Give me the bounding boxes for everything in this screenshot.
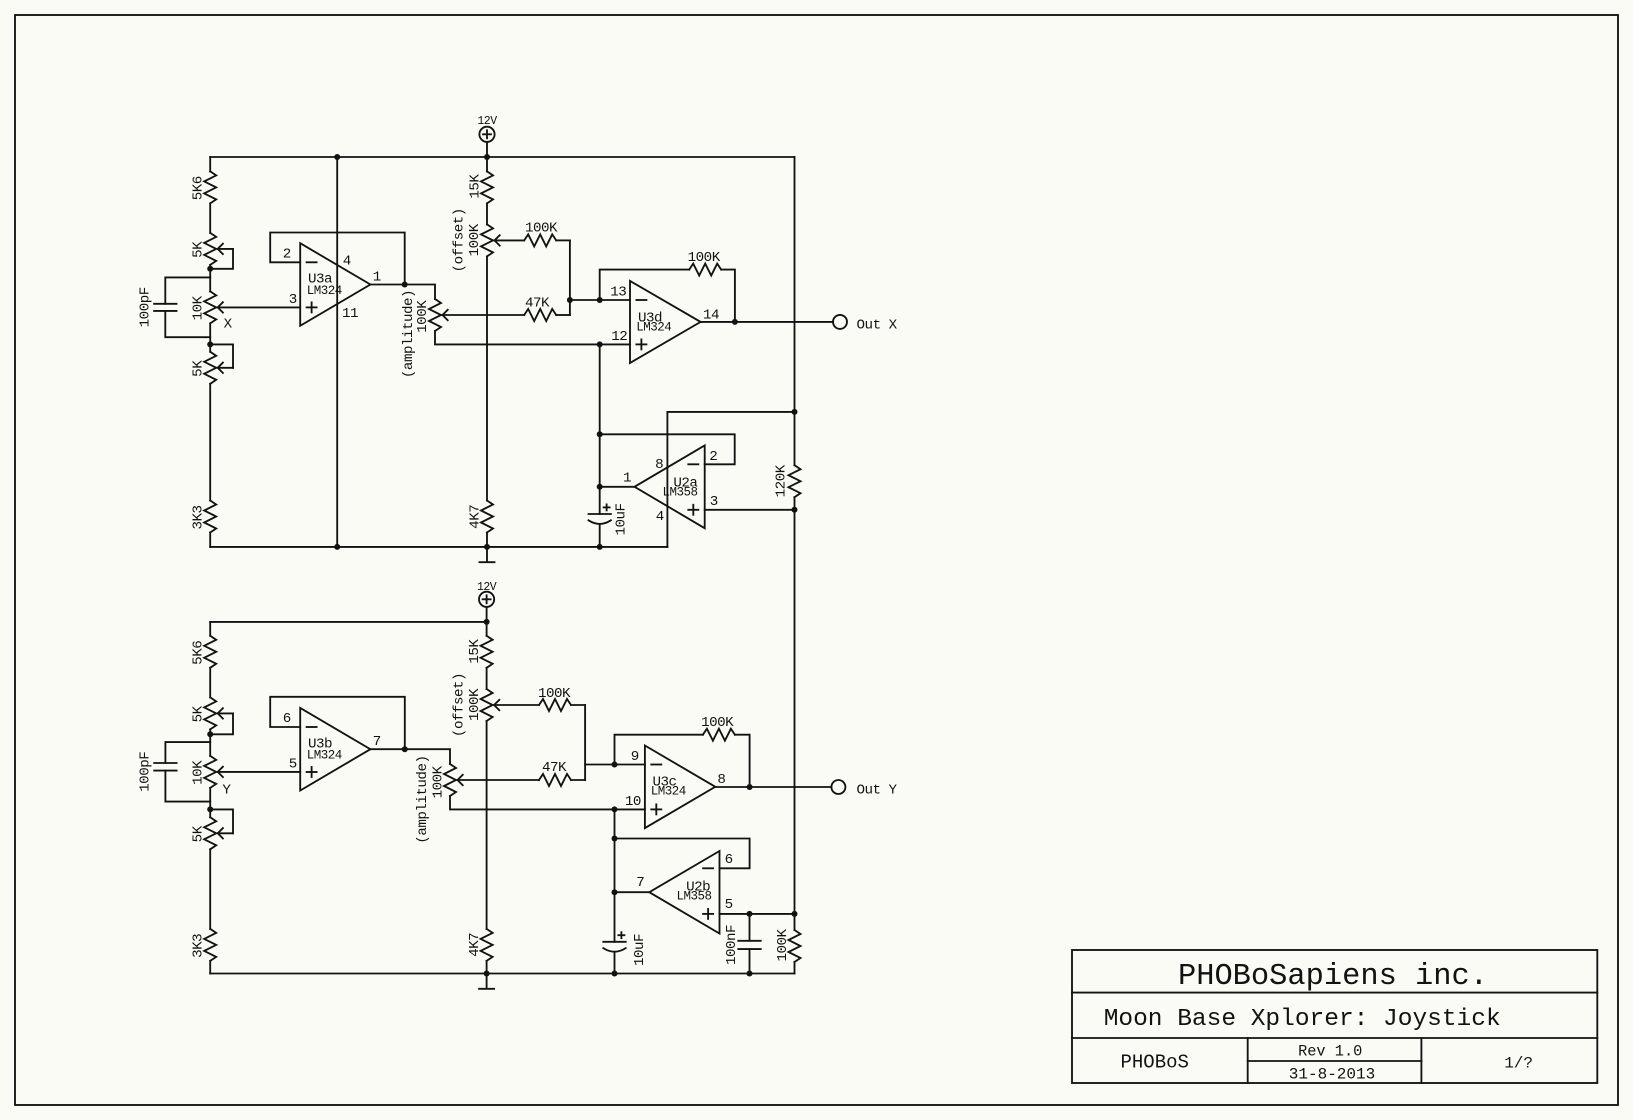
svg-text:(amplitude): (amplitude) (415, 756, 431, 844)
resistor 47K (Y) (539, 774, 571, 786)
wire buffer node vertical (X) (599, 344, 601, 514)
wire U3c feedback right leg (735, 735, 750, 787)
svg-text:(offset): (offset) (452, 208, 468, 272)
svg-text:3K3: 3K3 (190, 505, 206, 529)
wire offset 100K to 47K vertical (X) (569, 240, 571, 315)
svg-text:8: 8 (717, 772, 725, 788)
junction U3c feedback takeoff (612, 762, 618, 768)
wire U3a supply pins 4/11 vertical (336, 157, 338, 547)
resistor 5K6 (Y divider top) (204, 636, 216, 668)
wire amplitude pot bottom to U3d pin12 (435, 331, 630, 344)
wire to U3c pin 9 (585, 764, 645, 766)
svg-text:10uF: 10uF (632, 934, 648, 966)
svg-text:PHOBoSapiens inc.: PHOBoSapiens inc. (1178, 960, 1488, 994)
junction U3a pin11 line / ground rail (334, 544, 340, 550)
wire 47K to summing vertical (X) (556, 314, 570, 316)
svg-text:5K: 5K (190, 241, 206, 258)
junction node above 10K pot (Y) (207, 731, 213, 737)
op-amp U3d inverting input marker (636, 299, 646, 301)
svg-text:5: 5 (289, 757, 297, 773)
capacitor 100nF (reference) (738, 940, 760, 942)
wire top rail to 15K (X) (486, 157, 488, 171)
wire 3K3 to ground rail (X) (209, 533, 211, 547)
wire 100pF bottom branch (X) (165, 311, 210, 337)
svg-text:5K: 5K (190, 705, 206, 722)
svg-text:10uF: 10uF (614, 503, 630, 535)
svg-text:10: 10 (625, 794, 641, 810)
wire U2a supply pins 8/4 vertical (666, 412, 668, 547)
svg-text:5K: 5K (190, 825, 206, 842)
resistor 15K (Y offset divider) (481, 636, 493, 668)
wire to U3d pin 13 (570, 299, 630, 301)
svg-text:120K: 120K (774, 464, 790, 497)
svg-text:6: 6 (725, 852, 733, 868)
potentiometer 100K amplitude (X) (429, 299, 441, 331)
potentiometer 5K lower (X trim) (204, 352, 216, 384)
svg-text:47K: 47K (542, 760, 567, 776)
resistor 100K feedback (Y) (703, 729, 735, 741)
resistor 100K feedback (X) (689, 264, 721, 276)
svg-text:47K: 47K (525, 296, 550, 312)
wire 100pF top branch (X) (165, 277, 210, 303)
capacitor 10uF (X buffer) (589, 513, 611, 515)
svg-text:4K7: 4K7 (467, 505, 483, 529)
potentiometer 100K offset (Y) (481, 689, 493, 721)
svg-text:LM324: LM324 (651, 785, 686, 799)
svg-text:100K: 100K (775, 928, 791, 961)
svg-text:Moon Base Xplorer: Joystick: Moon Base Xplorer: Joystick (1104, 1006, 1501, 1033)
junction U2a output node (597, 484, 603, 490)
wire amplitude pot bottom to U3c pin10 (450, 796, 645, 809)
svg-text:3: 3 (289, 292, 297, 308)
wire left chain top (X) (209, 157, 211, 171)
wire 4K7 to ground rail (Y) (486, 961, 488, 974)
junction U3a pin4 line / top rail (334, 154, 340, 160)
wire 10uF to ground rail (Y) (614, 953, 616, 974)
svg-text:5K6: 5K6 (190, 176, 206, 200)
svg-text:10K: 10K (190, 760, 206, 785)
wire 5K pot to 10K pot (X) (209, 265, 211, 292)
wire 10uF to ground rail (X) (599, 525, 601, 547)
svg-text:2: 2 (709, 449, 717, 465)
svg-text:15K: 15K (467, 639, 483, 664)
junction 4K7 / ground rail (X) (484, 544, 490, 550)
junction U2b output node (612, 889, 618, 895)
junction node below 10K pot (Y) (207, 806, 213, 812)
wire 3K3 to ground rail (Y) (209, 961, 211, 974)
junction U3c output / feedback (747, 784, 753, 790)
svg-text:4: 4 (656, 509, 664, 525)
capacitor 100pF (Y) (154, 762, 176, 764)
junction node above 10K pot (X) (207, 266, 213, 272)
junction 10uF / ground rail (X) (597, 544, 603, 550)
wire 5K6 to 5K pot (X) (209, 203, 211, 233)
wire 100nF top lead (749, 914, 751, 941)
svg-text:13: 13 (610, 285, 626, 301)
svg-text:Out X: Out X (857, 317, 898, 333)
svg-text:5K: 5K (190, 360, 206, 377)
junction U2b pin6 / buffer node (612, 836, 618, 842)
op-amp U2b non-inverting input marker (703, 913, 713, 915)
connector Out X (833, 315, 847, 329)
op-amp U3c non-inverting input marker (651, 808, 661, 810)
svg-text:15K: 15K (467, 174, 483, 199)
resistor 100K (reference divider lower) (789, 930, 801, 962)
wire 5K6 to 5K pot (Y) (209, 668, 211, 698)
svg-text:100K: 100K (430, 765, 446, 798)
svg-text:2: 2 (283, 246, 291, 262)
wire U3b output to amplitude pot (370, 749, 450, 764)
junction 12V / top rail (X) (484, 154, 490, 160)
svg-text:31-8-2013: 31-8-2013 (1289, 1065, 1375, 1083)
svg-text:9: 9 (631, 749, 639, 765)
wire U2a pin 8 to 12V (667, 411, 794, 413)
wire 100K right end down (Y) (571, 704, 585, 706)
op-amp U3b inverting input marker (307, 726, 317, 728)
op-amp U3c LM324 triangle (645, 746, 715, 829)
junction U3d pin12 node (597, 341, 603, 347)
wire ground rail (Y section) (210, 973, 794, 975)
op-amp U2b inverting input marker (703, 867, 713, 869)
wire top rail to 15K (Y) (486, 622, 488, 636)
svg-text:5: 5 (725, 897, 733, 913)
resistor 100K offset coupling (Y) (539, 699, 571, 711)
potentiometer 5K lower (Y trim) (204, 817, 216, 849)
svg-text:100K: 100K (701, 715, 734, 731)
wire U2b output pin7 (615, 891, 650, 893)
wire offset 100K to 47K vertical (Y) (584, 705, 586, 780)
wire U3a output to amplitude pot (370, 285, 435, 300)
wire U3c feedback left leg (615, 735, 703, 765)
wire 5K lower wiper loop (X) (210, 344, 233, 367)
svg-text:100pF: 100pF (138, 287, 154, 327)
potentiometer 100K amplitude (Y) (444, 764, 456, 796)
junction 12V / top rail (Y) (484, 619, 490, 625)
junction U3d output / feedback (732, 319, 738, 325)
svg-text:1/?: 1/? (1504, 1054, 1533, 1072)
svg-text:100pF: 100pF (138, 752, 154, 792)
polarity + (10uF Y) (618, 934, 624, 936)
op-amp U2a inverting input marker (688, 463, 698, 465)
wire 5K upper wiper loop (X) (210, 249, 233, 269)
wire 12V right vertical upper (to 120K) (794, 157, 796, 465)
junction U3d feedback takeoff (597, 297, 603, 303)
junction 4K7 / ground rail (Y) (484, 971, 490, 977)
svg-text:100K: 100K (415, 300, 431, 333)
wire U2a output pin1 (600, 486, 635, 488)
resistor 15K (X offset divider) (481, 171, 493, 203)
wire ground rail (X section) (210, 546, 667, 548)
op-amp U3d non-inverting input marker (636, 343, 646, 345)
wire top 12V rail (Y section) (210, 621, 486, 623)
junction U3b output node (402, 746, 408, 752)
resistor 100K offset coupling (X) (524, 234, 556, 246)
op-amp U3b LM324 triangle (300, 708, 370, 791)
svg-text:4: 4 (343, 253, 351, 269)
connector Out Y (831, 780, 845, 794)
resistor 5K6 (X divider top) (204, 171, 216, 203)
resistor 3K3 (X divider bottom) (204, 501, 216, 533)
svg-text:100K: 100K (688, 250, 721, 266)
svg-text:LM358: LM358 (662, 486, 697, 500)
wire 100pF top branch (Y) (165, 742, 210, 763)
svg-text:(offset): (offset) (451, 673, 467, 737)
junction U2b pin5 / reference (792, 911, 798, 917)
wire U2b pin5 to reference (720, 913, 795, 915)
wire U2a pin2 loop (600, 434, 735, 464)
wire U3d feedback left leg (600, 270, 690, 300)
wire buffer node vertical (Y) (614, 809, 616, 941)
junction 100nF / U2b pin5 (747, 911, 753, 917)
op-amp U3a LM324 triangle (300, 243, 370, 326)
svg-text:Y: Y (222, 782, 231, 798)
wire chain to 3K3 (X) (209, 384, 211, 501)
wire U3a feedback pin2 to output (270, 233, 405, 285)
potentiometer 5K upper (Y trim) (204, 697, 216, 729)
wire 100pF bottom branch (Y) (165, 771, 210, 802)
svg-text:Rev 1.0: Rev 1.0 (1298, 1042, 1362, 1060)
12V supply symbol (X section) (479, 127, 494, 142)
svg-text:100K: 100K (467, 688, 483, 721)
wire 5K upper wiper loop (Y) (210, 713, 233, 734)
svg-text:100K: 100K (538, 686, 571, 702)
wire offset pot bottom to 4K7 (X) (486, 256, 488, 500)
svg-text:5K6: 5K6 (190, 641, 206, 665)
svg-text:Out Y: Out Y (856, 783, 897, 799)
svg-text:3: 3 (710, 494, 718, 510)
wire U3d output to Out X (701, 321, 833, 323)
wire U3d feedback right leg (721, 270, 735, 322)
svg-text:12: 12 (611, 329, 627, 345)
resistor 4K7 (X offset divider) (481, 501, 493, 533)
capacitor 10uF (Y buffer) (603, 941, 625, 943)
12V supply symbol (Y section) (479, 592, 494, 607)
svg-text:X: X (224, 317, 233, 333)
wire 12V symbol to top rail (Y) (486, 607, 488, 622)
svg-text:100K: 100K (525, 220, 558, 236)
op-amp U3d LM324 triangle (630, 281, 701, 363)
wire U3b feedback pin6 to output (270, 697, 405, 749)
svg-text:6: 6 (283, 711, 291, 727)
wire offset pot bottom to 4K7 (Y) (486, 721, 488, 929)
svg-text:PHOBoS: PHOBoS (1120, 1052, 1188, 1074)
svg-text:1: 1 (623, 471, 631, 487)
wire 15K to offset pot (Y) (486, 668, 488, 689)
op-amp U3a non-inverting input marker (307, 306, 317, 308)
svg-text:LM324: LM324 (636, 320, 671, 334)
junction U3c pin10 node (612, 806, 618, 812)
wire reference node vertical (794, 497, 796, 930)
wire 15K to offset pot (X) (486, 203, 488, 224)
potentiometer 10K Y-axis joystick (204, 756, 216, 788)
wire 5K lower wiper loop (Y) (210, 809, 233, 833)
op-amp U3b non-inverting input marker (307, 771, 317, 773)
wire U3c output to Out Y (715, 786, 831, 788)
junction 47K/offset/U3d pin13 (X) (567, 297, 573, 303)
op-amp U3c inverting input marker (651, 764, 661, 766)
resistor 4K7 (Y offset divider) (481, 929, 493, 961)
op-amp U2b LM358 triangle (649, 851, 719, 934)
ground symbol (X section) (486, 547, 488, 562)
wire 47K to summing vertical (Y) (571, 779, 585, 781)
wire top 12V rail (X section) (210, 156, 794, 158)
wire 10K pot to 5K pot lower (Y) (209, 788, 211, 817)
svg-text:1: 1 (373, 270, 381, 286)
wire 100K to ground rail (Y) (794, 962, 796, 974)
wire left chain top (Y) (209, 622, 211, 636)
junction 100nF / ground rail (Y) (747, 971, 753, 977)
op-amp U2a non-inverting input marker (688, 509, 698, 511)
junction U2a pin3 / reference (792, 507, 798, 513)
svg-text:LM358: LM358 (676, 889, 711, 903)
junction node below 10K pot (X) (207, 341, 213, 347)
svg-text:7: 7 (636, 875, 644, 891)
op-amp U2a LM358 triangle (635, 445, 705, 528)
svg-text:100nF: 100nF (724, 925, 740, 965)
svg-text:LM324: LM324 (307, 284, 342, 298)
svg-text:100K: 100K (467, 223, 483, 256)
wire 12V symbol to top rail (X) (486, 142, 488, 157)
capacitor 100pF (X) (154, 303, 176, 305)
svg-text:3K3: 3K3 (190, 934, 206, 958)
svg-text:LM324: LM324 (307, 749, 342, 763)
svg-text:8: 8 (655, 457, 663, 473)
svg-text:11: 11 (342, 306, 358, 322)
wire U2a pin3 to reference (705, 509, 795, 511)
wire 100K right end down (X) (556, 239, 570, 241)
junction U2a pin8 supply tap (792, 409, 798, 415)
wire 4K7 to ground rail (X) (486, 533, 488, 547)
svg-text:10K: 10K (190, 295, 206, 320)
svg-text:4K7: 4K7 (467, 933, 483, 957)
ground symbol (Y section) (486, 974, 488, 989)
title block frame (1072, 950, 1597, 1083)
wire 100nF to ground rail (Y) (749, 949, 751, 973)
resistor 3K3 (Y divider bottom) (204, 929, 216, 961)
junction U2a pin2 / buffer node (597, 431, 603, 437)
polarity + (10uF X) (604, 506, 610, 508)
resistor 47K (X) (524, 309, 556, 321)
junction 10uF / ground rail (Y) (612, 971, 618, 977)
op-amp U3a inverting input marker (307, 261, 317, 263)
potentiometer 5K upper (X trim) (204, 233, 216, 265)
svg-text:7: 7 (373, 734, 381, 750)
wire U2b pin6 loop (615, 839, 750, 869)
junction U3a output node (402, 282, 408, 288)
wire 5K pot to 10K pot (Y) (209, 729, 211, 756)
potentiometer 10K X-axis joystick (204, 291, 216, 323)
potentiometer 100K offset (X) (481, 224, 493, 256)
wire chain to 3K3 (Y) (209, 849, 211, 929)
resistor 120K (reference divider) (789, 465, 801, 497)
wire 10K pot to 5K pot lower (X) (209, 323, 211, 351)
